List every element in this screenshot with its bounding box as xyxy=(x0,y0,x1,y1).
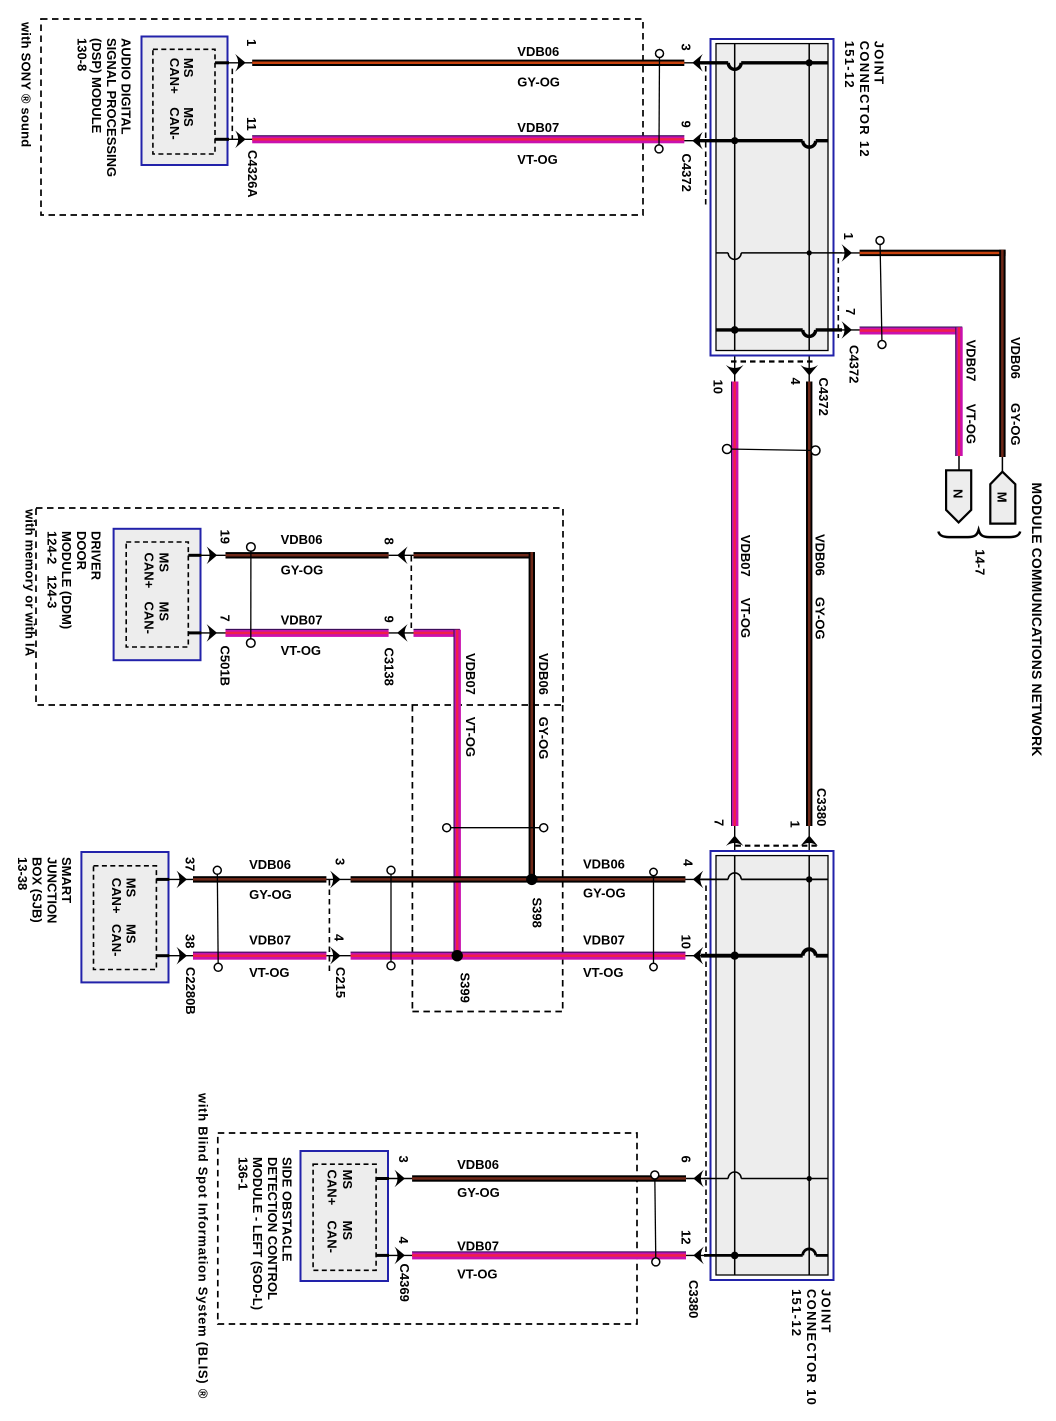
svg-text:CAN+: CAN+ xyxy=(109,878,124,914)
svg-text:with memory or with IA: with memory or with IA xyxy=(23,508,38,657)
svg-text:7: 7 xyxy=(218,615,233,622)
svg-text:CONNECTOR 12: CONNECTOR 12 xyxy=(857,41,872,158)
svg-text:DOOR: DOOR xyxy=(74,531,89,571)
svg-text:MODULE COMMUNICATIONS NETWORK: MODULE COMMUNICATIONS NETWORK xyxy=(1029,482,1045,756)
svg-text:C4326A: C4326A xyxy=(245,150,260,198)
svg-text:C2280B: C2280B xyxy=(183,967,198,1015)
svg-text:CAN-: CAN- xyxy=(325,1221,340,1254)
svg-text:C4369: C4369 xyxy=(397,1264,412,1302)
svg-text:3: 3 xyxy=(333,858,348,865)
svg-text:GY-OG: GY-OG xyxy=(457,1185,500,1200)
svg-text:38: 38 xyxy=(183,934,198,948)
svg-text:C4372: C4372 xyxy=(847,345,862,383)
svg-text:DRIVER: DRIVER xyxy=(89,531,104,581)
svg-text:AUDIO DIGITAL: AUDIO DIGITAL xyxy=(119,38,134,135)
svg-text:GY-OG: GY-OG xyxy=(1008,403,1023,446)
svg-text:VT-OG: VT-OG xyxy=(738,598,753,638)
svg-text:4: 4 xyxy=(332,934,347,942)
svg-text:GY-OG: GY-OG xyxy=(536,717,551,760)
svg-text:with SONY ® sound: with SONY ® sound xyxy=(19,21,34,147)
svg-text:1: 1 xyxy=(841,233,856,240)
svg-text:MS: MS xyxy=(181,58,196,78)
svg-text:MS: MS xyxy=(157,553,172,573)
svg-text:CAN+: CAN+ xyxy=(167,58,182,94)
svg-text:VT-OG: VT-OG xyxy=(517,152,557,167)
svg-text:9: 9 xyxy=(679,121,694,128)
svg-text:VT-OG: VT-OG xyxy=(281,643,321,658)
svg-text:3: 3 xyxy=(396,1156,411,1163)
svg-text:MS: MS xyxy=(340,1170,355,1190)
svg-text:GY-OG: GY-OG xyxy=(812,597,827,640)
svg-text:VT-OG: VT-OG xyxy=(583,965,623,980)
svg-text:SMART: SMART xyxy=(59,857,74,903)
svg-text:VDB06: VDB06 xyxy=(249,857,291,872)
svg-text:4: 4 xyxy=(681,859,696,867)
svg-text:1: 1 xyxy=(244,39,259,46)
svg-text:CAN+: CAN+ xyxy=(142,553,157,589)
svg-text:C501B: C501B xyxy=(218,646,233,686)
svg-text:MS: MS xyxy=(157,602,172,622)
svg-text:11: 11 xyxy=(244,117,259,131)
svg-text:JOINT: JOINT xyxy=(819,1289,834,1334)
svg-text:VT-OG: VT-OG xyxy=(249,965,289,980)
svg-text:VT-OG: VT-OG xyxy=(964,404,979,444)
svg-text:19: 19 xyxy=(218,530,233,544)
svg-text:VT-OG: VT-OG xyxy=(463,717,478,757)
svg-text:VDB07: VDB07 xyxy=(463,653,478,695)
svg-text:VDB06: VDB06 xyxy=(281,532,323,547)
svg-text:1: 1 xyxy=(788,821,803,828)
svg-text:C4372: C4372 xyxy=(816,378,831,416)
svg-text:VDB06: VDB06 xyxy=(812,534,827,576)
svg-text:DETECTION CONTROL: DETECTION CONTROL xyxy=(265,1157,280,1300)
svg-text:12: 12 xyxy=(679,1230,694,1244)
svg-text:BOX (SJB): BOX (SJB) xyxy=(30,857,45,923)
svg-text:124-2 124-3: 124-2 124-3 xyxy=(44,531,59,608)
svg-text:C3138: C3138 xyxy=(382,648,397,686)
svg-text:37: 37 xyxy=(183,857,198,871)
svg-text:151-12: 151-12 xyxy=(842,41,857,89)
svg-text:MS: MS xyxy=(340,1221,355,1241)
svg-text:MS: MS xyxy=(124,878,139,898)
svg-text:SIDE OBSTACLE: SIDE OBSTACLE xyxy=(280,1157,295,1262)
svg-text:C3380: C3380 xyxy=(814,788,829,826)
svg-text:S399: S399 xyxy=(458,973,473,1003)
svg-text:SIGNAL PROCESSING: SIGNAL PROCESSING xyxy=(104,38,119,177)
svg-text:CONNECTOR 10: CONNECTOR 10 xyxy=(804,1289,819,1406)
svg-text:14-7: 14-7 xyxy=(973,549,988,575)
svg-text:VDB07: VDB07 xyxy=(583,932,625,947)
svg-text:4: 4 xyxy=(788,378,803,386)
svg-text:GY-OG: GY-OG xyxy=(583,886,626,901)
svg-text:GY-OG: GY-OG xyxy=(517,74,560,89)
svg-text:VDB07: VDB07 xyxy=(457,1238,499,1253)
svg-text:4: 4 xyxy=(396,1237,411,1245)
svg-text:(DSP) MODULE: (DSP) MODULE xyxy=(89,38,104,134)
svg-text:VT-OG: VT-OG xyxy=(457,1266,497,1281)
svg-text:S398: S398 xyxy=(530,898,545,928)
svg-text:MODULE (DDM): MODULE (DDM) xyxy=(59,531,74,629)
svg-text:JUNCTION: JUNCTION xyxy=(44,857,59,923)
svg-text:VDB06: VDB06 xyxy=(1008,337,1023,379)
svg-text:CAN+: CAN+ xyxy=(325,1170,340,1206)
svg-text:VDB06: VDB06 xyxy=(457,1157,499,1172)
svg-text:10: 10 xyxy=(711,380,726,394)
svg-text:10: 10 xyxy=(679,935,694,949)
svg-text:MODULE - LEFT (SOD-L): MODULE - LEFT (SOD-L) xyxy=(250,1157,265,1310)
svg-text:VDB06: VDB06 xyxy=(517,44,559,59)
svg-text:VDB06: VDB06 xyxy=(583,857,625,872)
svg-text:13-38: 13-38 xyxy=(15,857,30,890)
svg-text:with Blind Spot Information Sy: with Blind Spot Information System (BLIS… xyxy=(196,1092,211,1399)
svg-text:VDB07: VDB07 xyxy=(738,535,753,577)
svg-text:MS: MS xyxy=(181,107,196,127)
svg-text:VDB06: VDB06 xyxy=(536,653,551,695)
svg-text:9: 9 xyxy=(382,616,397,623)
svg-text:151-12: 151-12 xyxy=(789,1289,804,1337)
svg-text:130-8: 130-8 xyxy=(74,38,89,71)
svg-text:136-1: 136-1 xyxy=(235,1157,250,1190)
svg-text:VDB07: VDB07 xyxy=(964,340,979,382)
svg-text:M: M xyxy=(995,492,1010,503)
svg-text:C215: C215 xyxy=(333,967,348,998)
svg-text:MS: MS xyxy=(124,924,139,944)
svg-text:GY-OG: GY-OG xyxy=(249,887,292,902)
svg-text:C3380: C3380 xyxy=(686,1280,701,1318)
svg-text:C4372: C4372 xyxy=(679,154,694,192)
svg-text:VDB07: VDB07 xyxy=(249,932,291,947)
svg-text:6: 6 xyxy=(679,1156,694,1163)
svg-text:3: 3 xyxy=(679,44,694,51)
svg-text:GY-OG: GY-OG xyxy=(281,562,324,577)
svg-text:CAN-: CAN- xyxy=(167,107,182,140)
svg-text:VDB07: VDB07 xyxy=(517,120,559,135)
svg-text:CAN-: CAN- xyxy=(142,602,157,635)
svg-text:7: 7 xyxy=(843,308,858,315)
svg-text:CAN-: CAN- xyxy=(109,924,124,957)
svg-text:N: N xyxy=(951,489,966,498)
svg-text:VDB07: VDB07 xyxy=(281,613,323,628)
svg-text:8: 8 xyxy=(382,538,397,545)
svg-text:JOINT: JOINT xyxy=(872,41,887,86)
svg-text:7: 7 xyxy=(712,819,727,826)
